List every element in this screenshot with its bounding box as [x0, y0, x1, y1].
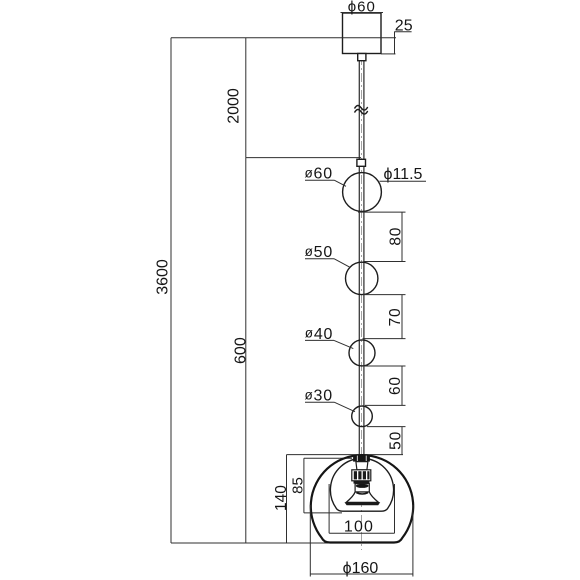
dim 140 — [273, 455, 290, 543]
socket band — [354, 481, 370, 484]
svg-text:50: 50 — [388, 431, 405, 450]
svg-text:ϕ11.5: ϕ11.5 — [384, 166, 423, 183]
centerline (dash-dot axis) — [360, 56, 362, 550]
svg-text:3600: 3600 — [154, 259, 171, 295]
svg-text:85: 85 — [289, 477, 306, 494]
dim 2000 — [226, 38, 246, 158]
extension line 2000 bottom — [246, 157, 361, 159]
svg-text:60: 60 — [387, 376, 404, 395]
label diam 30 — [305, 387, 356, 411]
shade top extension line (140 / 50) — [287, 454, 404, 456]
canopy neck — [358, 54, 366, 61]
dim 3600 — [154, 38, 171, 543]
bulb neck cup — [355, 484, 369, 492]
svg-text:ϕ160: ϕ160 — [343, 560, 379, 577]
svg-text:70: 70 — [387, 308, 404, 327]
label diam 40 — [305, 326, 354, 349]
shade outer globe (phi160) — [311, 455, 413, 542]
svg-text:140: 140 — [273, 485, 290, 511]
svg-text:100: 100 — [344, 519, 374, 536]
svg-text:25: 25 — [395, 18, 413, 35]
dim phi60 (canopy) — [341, 0, 384, 16]
dim 50 — [367, 427, 406, 455]
dim 100 — [329, 484, 394, 536]
svg-text:80: 80 — [387, 227, 404, 246]
dim 60 — [363, 366, 406, 405]
cable break symbol — [355, 105, 368, 114]
svg-text:2000: 2000 — [226, 88, 243, 124]
dim 25 — [381, 18, 413, 55]
ball 1 (phi60) — [343, 173, 382, 212]
socket clamp — [353, 456, 370, 462]
dim 70 — [363, 295, 406, 339]
svg-text:600: 600 — [233, 337, 250, 364]
dim 600 — [233, 158, 250, 543]
dim 85 — [289, 458, 352, 513]
dim 80 — [358, 212, 406, 261]
socket funnel — [356, 462, 368, 470]
label diam 60 — [305, 165, 347, 186]
socket block — [352, 470, 371, 481]
svg-text:ϕ60: ϕ60 — [348, 0, 376, 16]
ball 4 (phi30) — [352, 406, 373, 427]
label diam 50 — [305, 244, 350, 267]
ball 2 (phi50) — [346, 262, 378, 294]
dim phi160 — [310, 505, 413, 577]
label diam 11.5 — [380, 166, 427, 183]
ceiling extension line — [171, 37, 396, 39]
canopy — [343, 13, 382, 54]
ball fitting — [357, 159, 366, 166]
wire (suspension cable, double line) — [359, 61, 364, 456]
shade inner glass — [330, 458, 393, 511]
bulb cone (GU10) — [345, 492, 381, 505]
ball 3 (phi40) — [349, 340, 375, 366]
bottom extension line — [171, 542, 329, 544]
